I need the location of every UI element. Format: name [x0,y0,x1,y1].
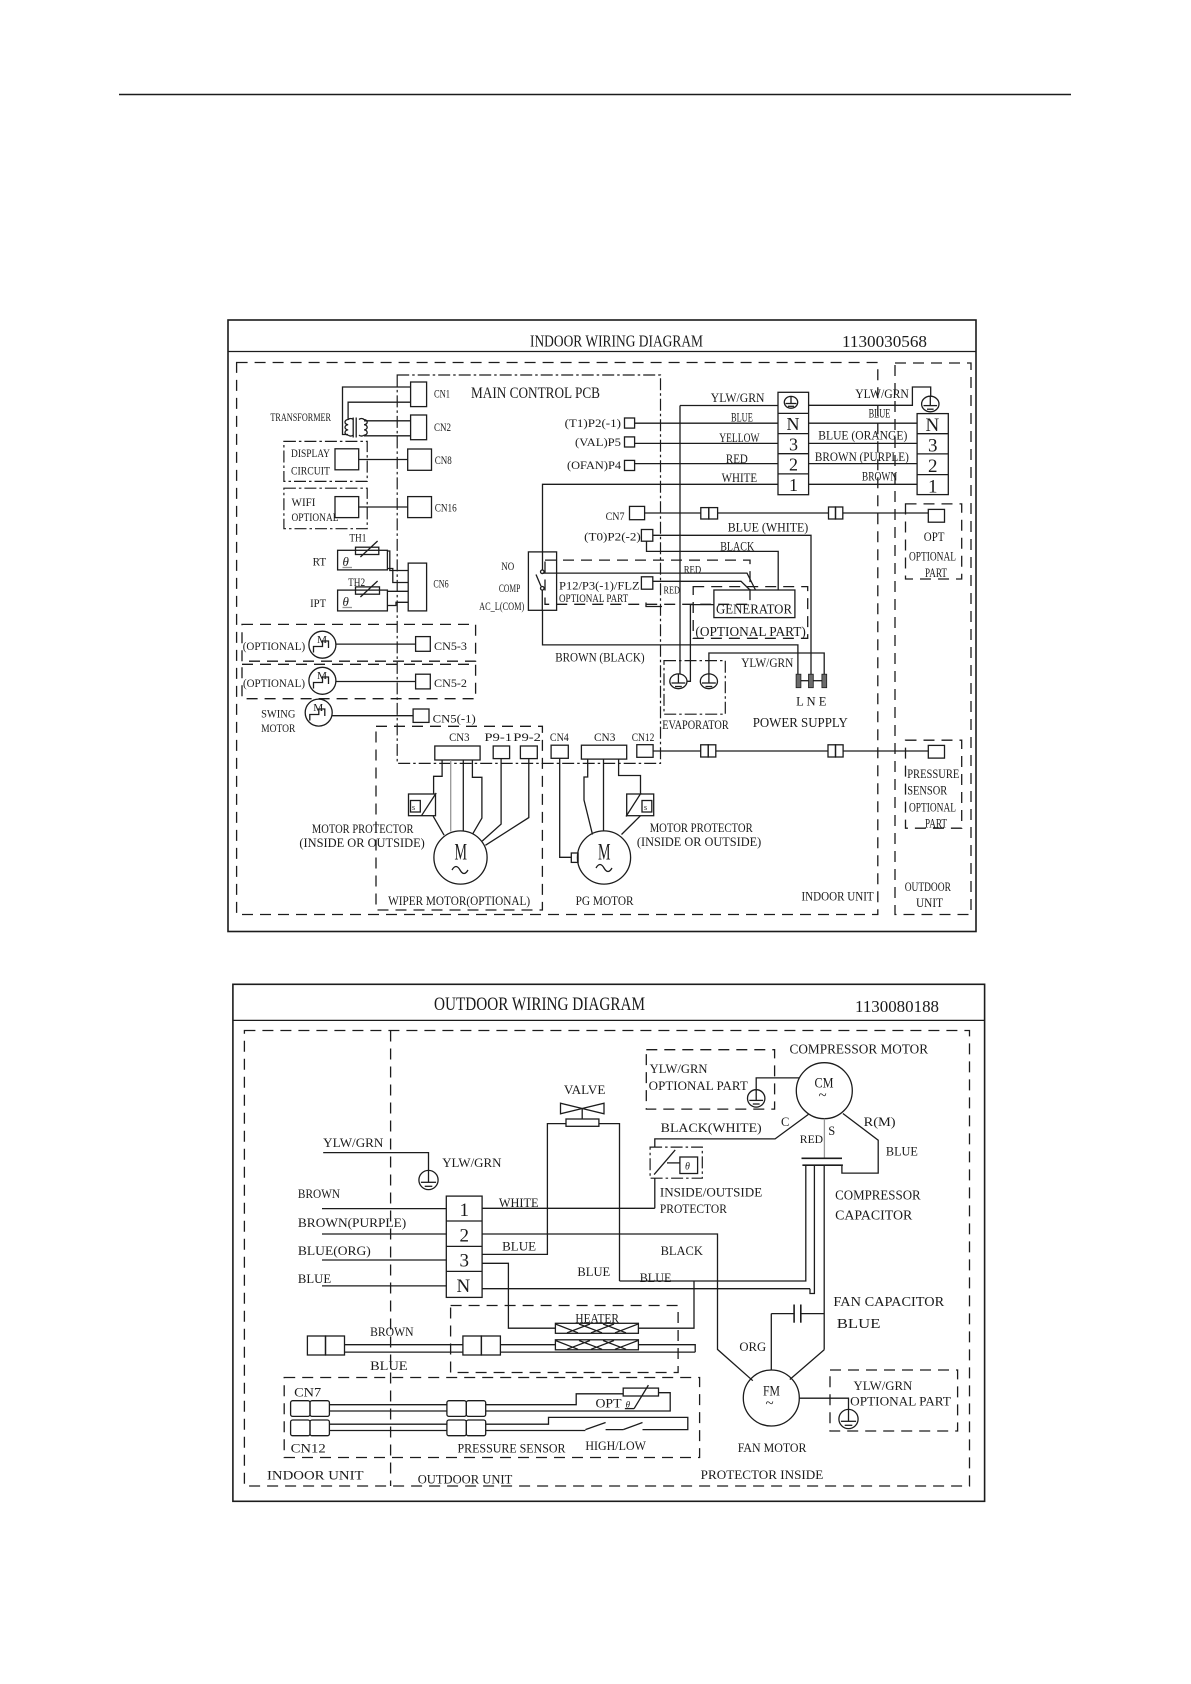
svg-text:WHITE: WHITE [499,1195,539,1210]
CN12 loop wires [329,1423,447,1425]
svg-text:FAN CAPACITOR: FAN CAPACITOR [833,1294,944,1309]
svg-text:L N E: L N E [796,695,827,709]
svg-text:BLUE (ORANGE): BLUE (ORANGE) [818,428,907,442]
valve legs [482,1124,566,1255]
svg-text:CN2: CN2 [434,420,451,434]
wire fan motor to earth [799,1398,848,1409]
connector P9-2 [520,746,537,759]
wire swing motor to CN5(-1) [332,715,413,717]
svg-text:M: M [455,840,468,865]
svg-text:CN5(-1): CN5(-1) [433,711,476,725]
svg-text:BLUE: BLUE [298,1271,331,1286]
svg-text:BLACK(WHITE): BLACK(WHITE) [661,1120,762,1135]
svg-text:NO: NO [501,559,514,573]
svg-text:1: 1 [789,475,798,495]
optional motor dashed box 2 [242,664,476,698]
svg-text:YLW/GRN: YLW/GRN [323,1135,384,1150]
svg-text:BLUE: BLUE [370,1358,408,1373]
svg-text:1: 1 [460,1200,470,1221]
wire heater lower right end loop [638,1345,695,1352]
PCB pin (T0)P2(-2) [641,530,652,542]
svg-text:POWER SUPPLY: POWER SUPPLY [753,715,848,730]
svg-text:PG MOTOR: PG MOTOR [576,893,634,908]
svg-text:INSIDE/OUTSIDE: INSIDE/OUTSIDE [660,1186,763,1200]
PCB pin CN7 [630,506,645,519]
wire YLW/GRN evaporator earth to power supply E [709,653,824,674]
svg-text:COMPRESSOR: COMPRESSOR [835,1188,921,1203]
connector CN3 (wiper) [435,746,480,760]
connector CN2 [411,415,427,440]
svg-text:2: 2 [789,455,798,475]
svg-text:2: 2 [928,456,938,477]
wire BLUE N row to capacitor [482,1288,810,1290]
svg-text:HIGH/LOW: HIGH/LOW [585,1438,646,1453]
fan motor FM [743,1370,799,1426]
high/low pressure switch blades [585,1423,605,1430]
pressure sensor dashed box [284,1378,699,1458]
wire P9-1 to wiper motor [482,759,501,841]
wifi optional dash-dot box [284,488,367,529]
svg-text:BLUE: BLUE [577,1264,610,1279]
svg-text:MAIN CONTROL PCB: MAIN CONTROL PCB [471,385,600,402]
svg-text:s: s [644,803,647,812]
connector CN5(-1) [413,709,429,722]
wire (OFAN) RED to block 2 [635,463,778,465]
svg-text:OUTDOOR WIRING DIAGRAM: OUTDOOR WIRING DIAGRAM [434,995,645,1015]
svg-text:BLUE: BLUE [502,1239,536,1254]
wire P9-2 to wiper motor [485,759,528,846]
outdoor terminal block [446,1196,482,1297]
svg-text:CN12: CN12 [632,730,655,744]
svg-text:(INSIDE OR OUTSIDE): (INSIDE OR OUTSIDE) [299,836,424,850]
svg-text:YELLOW: YELLOW [719,431,759,445]
svg-text:CN6: CN6 [433,577,448,591]
svg-text:R(M): R(M) [864,1114,896,1129]
pressure sensor terminal square [928,745,944,758]
svg-text:YLW/GRN: YLW/GRN [650,1062,708,1076]
svg-text:DISPLAY: DISPLAY [291,446,330,460]
indoor diagram outer frame [228,320,976,932]
indoor-outdoor heater connector pair 1 [307,1336,344,1355]
wire (T1) BLUE to block N [635,422,778,424]
wire wifi to CN16 [359,506,408,508]
svg-text:(VAL)P5: (VAL)P5 [575,437,621,449]
svg-text:CN4: CN4 [550,730,569,744]
svg-text:YLW/GRN: YLW/GRN [442,1155,502,1170]
svg-text:BLACK: BLACK [720,539,754,554]
top rule [119,94,1071,96]
connector CN12 [637,745,653,758]
svg-text:YLW/GRN: YLW/GRN [855,387,909,401]
wire R(M) BLUE to capacitor [842,1114,878,1174]
svg-text:BLUE: BLUE [640,1270,672,1285]
svg-text:RED: RED [800,1134,823,1146]
svg-text:BROWN(PURPLE): BROWN(PURPLE) [298,1215,406,1230]
svg-text:N: N [787,414,800,434]
inline connector (CN12 net, pair 1) [701,745,716,757]
wire CN3(PG) mid pin to PG motor [603,759,605,831]
svg-text:BLUE: BLUE [837,1316,881,1331]
svg-text:SWING: SWING [261,707,296,721]
wire CN3 pin C to wiper motor [462,760,464,831]
svg-text:OPT: OPT [596,1397,622,1411]
svg-text:(OPTIONAL PART): (OPTIONAL PART) [695,624,805,639]
power supply terminal E [822,674,827,688]
svg-text:OPTIONAL PART: OPTIONAL PART [559,593,628,605]
svg-text:PROTECTOR INSIDE: PROTECTOR INSIDE [701,1467,824,1482]
svg-text:BLUE (WHITE): BLUE (WHITE) [728,520,809,535]
earth symbol (compressor) [748,1090,765,1107]
svg-text:RT: RT [313,555,327,569]
wire capacitor left lead to valve-leg BLUE line [620,1165,806,1281]
display circuit dash-dot box [284,441,367,481]
power supply terminal links [801,680,809,682]
svg-text:AC_L(COM): AC_L(COM) [479,599,524,613]
optional motor dashed box 1 [242,624,476,661]
svg-text:OUTDOOR UNIT: OUTDOOR UNIT [418,1472,513,1487]
svg-text:BROWN: BROWN [370,1324,414,1339]
svg-text:P9-1: P9-1 [484,730,512,744]
pressure sensor optional dashed box [906,740,962,828]
wire CN3(PG) left pin to PG motor [584,759,593,834]
indoor unit dashed border [237,363,878,915]
svg-text:(INSIDE OR OUTSIDE): (INSIDE OR OUTSIDE) [637,835,761,849]
wire CN3 pin B (gray) to wiper motor [450,760,452,832]
svg-text:FAN MOTOR: FAN MOTOR [738,1440,807,1455]
connector CN4 [551,745,568,758]
svg-text:3: 3 [460,1251,470,1272]
svg-text:TH1: TH1 [349,530,366,544]
earth symbol (evaporator left) [670,674,687,689]
svg-text:(T1)P2(-1): (T1)P2(-1) [565,418,622,430]
svg-text:PART: PART [925,566,947,580]
wire BLUE(WHITE) T0 to power supply N [653,535,811,674]
connector CN5-2 [416,674,431,689]
PG motor M [577,831,630,884]
svg-text:BROWN: BROWN [298,1186,341,1201]
svg-text:~: ~ [766,1396,774,1412]
wire CN3(PG) right pin to protector to PG motor [619,759,641,794]
connector P9-1 [493,746,509,759]
motor protector (wiper) [409,793,437,816]
svg-text:3: 3 [789,435,798,455]
PCB pin (OFAN)P4 [625,460,635,470]
wire CN3 pin D to wiper motor [472,760,482,834]
svg-text:C: C [781,1115,789,1129]
svg-text:2: 2 [460,1226,470,1247]
svg-text:CN3: CN3 [449,730,469,744]
wire TH1 to CN6 [387,551,408,571]
svg-text:EVAPORATOR: EVAPORATOR [662,718,729,732]
svg-text:θ: θ [343,554,350,569]
heater element lower [555,1340,638,1350]
svg-text:WIPER MOTOR(OPTIONAL): WIPER MOTOR(OPTIONAL) [388,893,530,908]
wire display to CN8 [359,459,408,461]
wire heater upper right end to BLUE line [638,1281,694,1328]
outdoor diagram outer frame [233,984,985,1501]
svg-text:YLW/GRN: YLW/GRN [854,1379,913,1393]
svg-text:WHITE: WHITE [722,471,758,485]
svg-text:PRESSURE: PRESSURE [907,767,959,781]
compressor motor CM [796,1063,852,1119]
svg-text:TRANSFORMER: TRANSFORMER [270,410,331,424]
outdoor terminal block (indoor diagram) [917,414,948,498]
CN7 connector pair 1 [291,1401,330,1417]
svg-text:VALVE: VALVE [564,1082,606,1097]
generator box [714,590,795,618]
evaporator dash-dot box [664,661,725,715]
svg-text:BLUE(ORG): BLUE(ORG) [298,1243,371,1258]
svg-text:N: N [457,1276,471,1297]
svg-text:(T0)P2(-2): (T0)P2(-2) [584,531,641,543]
motor M (optional 2) [309,667,336,694]
power supply terminal L [796,674,801,688]
svg-text:M: M [598,840,611,865]
svg-text:BLUE: BLUE [731,411,753,425]
wire transformer secondary to CN2 [364,420,411,422]
svg-text:INDOOR UNIT: INDOOR UNIT [802,889,874,904]
wire cell3 to heater upper element [482,1263,555,1328]
wire earth to compressor [756,1078,799,1090]
wire motor1 to CN5-3 [336,643,416,645]
svg-text:1130080188: 1130080188 [855,997,939,1016]
svg-text:OPTIONAL PART: OPTIONAL PART [649,1079,748,1093]
indoor/outdoor dashed separator [390,1031,392,1487]
wire BLACK cell2 to fan motor [482,1234,753,1381]
power supply terminal N [809,674,814,688]
svg-text:INDOOR WIRING DIAGRAM: INDOOR WIRING DIAGRAM [530,332,703,351]
inline connector (CN7 net, pair 1) [701,508,718,519]
wire WHITE block 1 to switch [543,484,779,570]
PCB pin P12/P3(-1)/FLZ [641,577,652,589]
inline connector (CN7 net, pair 2) [829,507,843,519]
earth symbol (outdoor left) [419,1170,438,1189]
wire CN3 pin A to protector to wiper motor [434,760,443,794]
wire BLUE fan lead [790,1350,824,1380]
svg-text:BLUE: BLUE [886,1144,918,1159]
svg-text:CN5-3: CN5-3 [434,639,467,653]
svg-text:CN12: CN12 [291,1442,326,1456]
svg-text:θ: θ [343,594,350,609]
svg-text:OUTDOOR: OUTDOOR [905,880,952,894]
svg-text:YLW/GRN: YLW/GRN [741,656,793,670]
motor M (optional 1) [309,631,336,658]
earth symbol (outdoor block) [922,396,939,412]
wire CN4 to PG motor square [560,758,572,857]
svg-text:CN8: CN8 [435,453,452,467]
svg-text:MOTOR PROTECTOR: MOTOR PROTECTOR [312,822,414,836]
YLW/GRN optional part dashed box (compressor) [646,1050,774,1109]
svg-text:BROWN: BROWN [862,470,897,484]
wire motor2 to CN5-2 [336,681,416,683]
switch NO/COMP/AC_L [528,552,556,610]
wire BROWN(PURPLE) 2-2 [809,463,918,465]
svg-text:P9-2: P9-2 [513,730,541,744]
compressor capacitor [802,1158,843,1165]
svg-text:1130030568: 1130030568 [842,332,927,351]
svg-text:CN7: CN7 [294,1386,321,1400]
motor protector (PG) [626,793,654,817]
svg-text:CAPACITOR: CAPACITOR [835,1208,912,1223]
svg-text:MOTOR: MOTOR [261,721,295,735]
wire YLW/GRN terminal to left evaporator earth [679,406,681,674]
svg-text:CN1: CN1 [434,387,450,401]
wire BROWN 1-1 [809,483,918,485]
svg-text:MOTOR PROTECTOR: MOTOR PROTECTOR [650,821,754,835]
heater dashed box [451,1306,678,1373]
YLW/GRN optional part dashed box (fan) [830,1370,958,1431]
wire YLW/GRN to indoor block earth [680,405,778,407]
svg-text:CN16: CN16 [435,501,457,515]
connector CN8 [408,449,432,470]
connector CN5-3 [416,637,431,652]
svg-text:OPTIONAL: OPTIONAL [909,550,956,564]
wire through protector to WHITE [654,1178,656,1208]
svg-text:COMPRESSOR MOTOR: COMPRESSOR MOTOR [790,1042,929,1057]
wire RED S lead to compressor capacitor [823,1119,825,1159]
OPT optional part dashed box [906,504,962,579]
wiper motor dashed box [376,726,542,910]
wire BLUE(ORANGE) 3-3 [809,442,918,444]
svg-text:3: 3 [928,436,938,457]
OPT terminal square [928,509,944,522]
svg-text:BROWN (BLACK): BROWN (BLACK) [555,649,644,664]
svg-text:θ: θ [685,1162,690,1173]
outdoor unit dashed border (indoor diagram) [895,363,971,915]
svg-text:CN5-2: CN5-2 [434,676,467,690]
connector CN1 [411,382,427,407]
connector CN16 [408,497,432,518]
svg-text:CN7: CN7 [606,509,625,523]
heater element upper [555,1323,638,1333]
svg-text:OPTIONAL: OPTIONAL [909,801,956,815]
wire CN1 to transformer primary [343,387,411,435]
wire CN7 net [645,512,701,514]
svg-text:(OPTIONAL): (OPTIONAL) [243,676,305,690]
svg-text:OPT: OPT [924,530,945,544]
svg-text:PROTECTOR: PROTECTOR [660,1202,728,1216]
svg-text:P12/P3(-1)/FLZ: P12/P3(-1)/FLZ [559,581,640,593]
svg-text:OPTIONAL PART: OPTIONAL PART [850,1395,951,1409]
svg-text:YLW/GRN: YLW/GRN [711,391,765,405]
svg-text:RED: RED [664,584,680,596]
svg-text:RED: RED [684,564,702,576]
wire (VAL) YELLOW to block 3 [635,442,778,444]
wire BLUE N-N between blocks [809,422,918,424]
svg-text:s: s [412,803,415,812]
inside/outside protector [650,1147,702,1178]
svg-text:N: N [926,415,940,436]
svg-text:PRESSURE SENSOR: PRESSURE SENSOR [458,1442,567,1456]
outdoor dashed border [244,1031,969,1487]
svg-text:COMP: COMP [499,581,521,595]
connector CN3 (PG) [581,745,626,759]
svg-text:BROWN (PURPLE): BROWN (PURPLE) [815,450,909,464]
svg-text:(OPTIONAL): (OPTIONAL) [243,639,306,653]
wire C lead to protector [655,1114,809,1147]
CN7 loop wires [329,1404,447,1406]
svg-text:BLACK: BLACK [661,1243,704,1258]
earth symbol (indoor block) [784,396,797,408]
svg-text:IPT: IPT [310,596,327,610]
svg-text:INDOOR UNIT: INDOOR UNIT [267,1468,364,1483]
svg-text:RED: RED [726,452,748,466]
CN7 connector pair 2 [447,1401,486,1417]
svg-text:(OFAN)P4: (OFAN)P4 [567,460,621,472]
main control PCB dash-dot box [397,375,660,763]
wire capacitor centre lead down to fan circuit [823,1165,825,1350]
PCB pin (T1)P2(-1) [625,418,635,428]
wire YLW/GRN earth jumper to outdoor block [809,387,931,405]
wire BLACK T0 to generator [647,541,779,590]
svg-text:ORG: ORG [739,1339,766,1354]
wire BROWN(BLACK) switch to power supply L [543,610,798,674]
svg-text:S: S [828,1124,835,1138]
svg-text:1: 1 [928,477,938,498]
svg-text:CIRCUIT: CIRCUIT [291,464,331,478]
generator optional dashed box [693,587,808,639]
wire capacitor right lead to N BLUE line [810,1165,814,1293]
wire generator left to evaporator earth [687,605,714,682]
CN12 connector pair 2 [447,1420,486,1436]
svg-text:PART: PART [925,817,947,831]
svg-text:CN3: CN3 [594,730,615,744]
indoor-outdoor heater connector pair 2 [463,1336,501,1355]
svg-text:SENSOR: SENSOR [907,784,948,798]
wiper motor M [434,831,487,884]
wire WHITE cell1 to protector [482,1207,655,1209]
svg-text:OPTIONAL: OPTIONAL [292,510,339,524]
inline connector (CN12 net, pair 2) [828,745,843,757]
PCB pin (VAL)P5 [625,437,635,447]
wire RED P12 to generator [653,581,750,590]
svg-text:UNIT: UNIT [916,896,943,910]
wire ORG fan cap to fan motor [770,1314,772,1370]
wire CN12 net [653,750,701,752]
wire TH2 to CN6 [387,590,408,592]
svg-text:WIFI: WIFI [292,495,316,509]
svg-text:~: ~ [819,1088,827,1104]
earth symbol (evaporator right) [700,674,717,689]
wire RED switch to generator [543,573,756,590]
svg-text:BLUE: BLUE [869,407,891,421]
indoor terminal block [778,392,809,495]
P12 dashed box [545,560,750,604]
connector CN6 [408,563,426,611]
earth symbol (fan) [839,1409,858,1428]
svg-text:GENERATOR: GENERATOR [716,603,793,618]
CN12 connector pair 1 [291,1420,330,1436]
